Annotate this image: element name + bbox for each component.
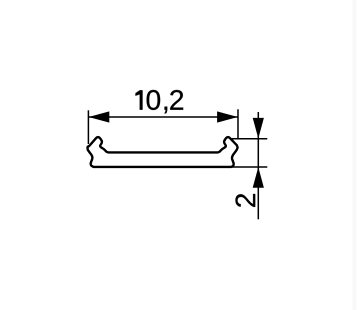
dimension 10,2 : value label <box>136 90 184 113</box>
dimension 2 : value label (rotated) <box>235 194 255 207</box>
dimension 10,2 : left arrowhead <box>89 111 110 122</box>
dimension 2 : upper arrowhead pointing down <box>253 118 264 139</box>
profile cross-section outline <box>88 137 238 167</box>
dimension 2 : dimension line <box>257 112 259 219</box>
faint page edge line <box>353 0 357 310</box>
dimension 10,2 : right arrowhead <box>217 111 238 122</box>
dimension 2 : top extension line <box>230 138 267 140</box>
dimension 10,2 : left extension line <box>87 110 89 144</box>
dimension 10,2 : dimension line <box>88 116 238 118</box>
dimension 2 : bottom extension line <box>231 166 267 168</box>
dimension 10,2 : right extension line <box>237 109 239 139</box>
dimension 2 : lower arrowhead pointing up <box>253 167 264 188</box>
